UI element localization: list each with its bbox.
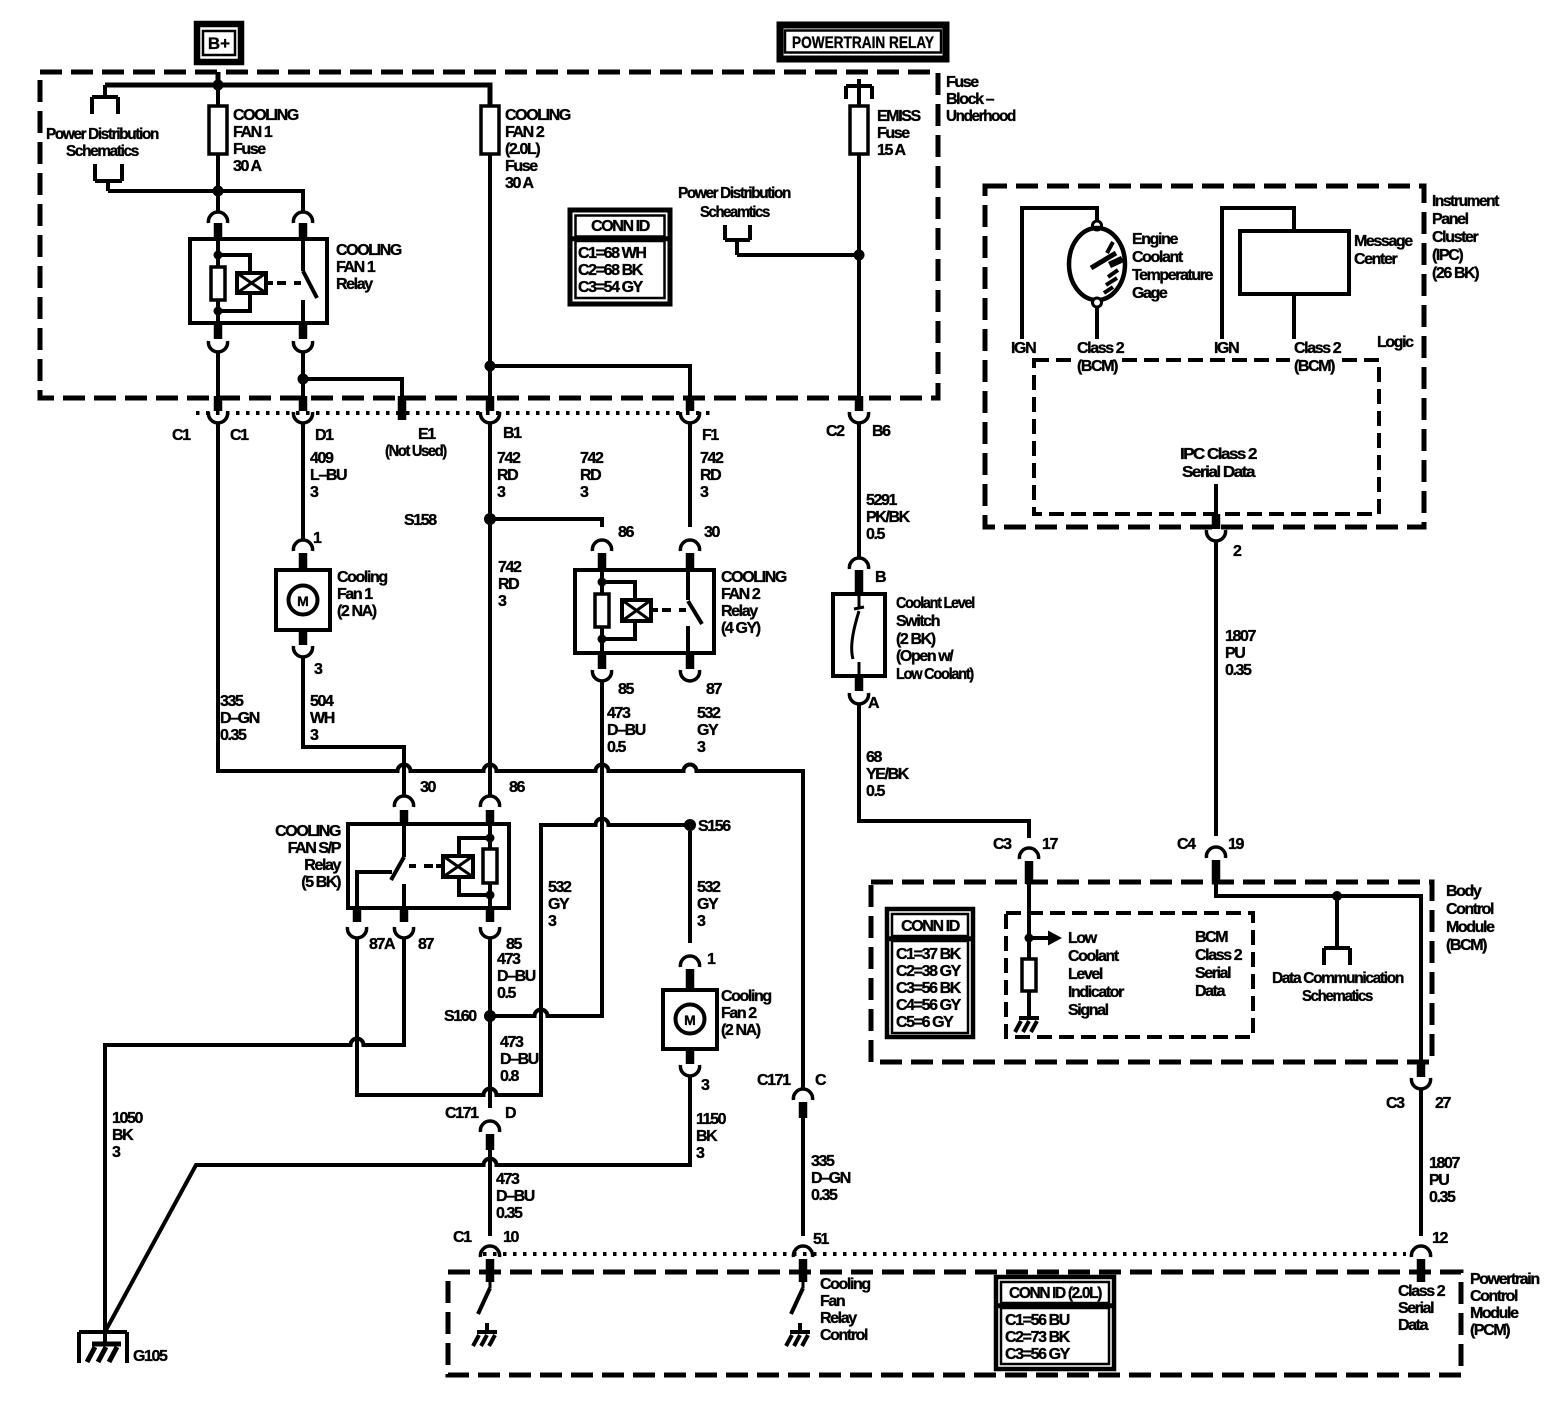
svg-text:S156: S156 [698, 818, 731, 835]
connector sp relay pin 86 [480, 779, 525, 824]
svg-text:27: 27 [1435, 1095, 1451, 1112]
svg-text:Cooling: Cooling [337, 569, 387, 586]
svg-text:E1: E1 [418, 426, 436, 443]
svg-text:12: 12 [1432, 1230, 1448, 1247]
svg-text:PU: PU [1429, 1172, 1449, 1189]
label Fuse Block Underhood [946, 74, 1016, 125]
svg-text:Coolant: Coolant [1068, 948, 1120, 965]
label Low Coolant Level Indicator Signal [1068, 930, 1124, 1019]
low coolant level indicator signal circuit [1015, 884, 1062, 1032]
svg-text:Signal: Signal [1068, 1002, 1109, 1019]
svg-text:C1: C1 [230, 427, 249, 444]
svg-text:C171: C171 [757, 1072, 791, 1089]
svg-text:Cooling: Cooling [820, 1276, 870, 1293]
svg-text:5291: 5291 [866, 492, 897, 509]
connector BCM C3 pin 27 [1386, 1062, 1451, 1112]
svg-text:Relay: Relay [820, 1310, 857, 1327]
svg-text:GY: GY [548, 896, 570, 913]
svg-text:Switch: Switch [896, 613, 940, 630]
off-page reference bracket power distribution (bottom) [95, 164, 122, 191]
connector BCM C4 pin 19 [1177, 836, 1244, 884]
connector PCM pin 12 [1411, 1230, 1448, 1282]
svg-text:C1: C1 [172, 427, 191, 444]
svg-text:(2 NA): (2 NA) [721, 1022, 761, 1039]
wire 742 RD 3 B1 to S158 to sp relay 86 [490, 423, 521, 796]
svg-text:Center: Center [1354, 251, 1397, 268]
connector coolant switch pin B [849, 558, 886, 594]
svg-text:Indicator: Indicator [1068, 984, 1124, 1001]
svg-text:C171: C171 [445, 1105, 479, 1122]
svg-text:3: 3 [314, 661, 323, 678]
svg-text:Powertrain: Powertrain [1470, 1271, 1539, 1288]
svg-text:1807: 1807 [1429, 1155, 1460, 1172]
svg-text:Low: Low [1068, 930, 1098, 947]
connector motor2 pin 3 [680, 1049, 710, 1094]
label C1 C1 [172, 427, 249, 444]
svg-text:86: 86 [618, 524, 634, 541]
label Cooling Fan Relay Control [820, 1276, 870, 1344]
svg-text:0.8: 0.8 [500, 1068, 520, 1085]
svg-text:15 A: 15 A [877, 142, 906, 159]
svg-text:(Open w/: (Open w/ [896, 648, 954, 665]
svg-text:0.35: 0.35 [496, 1205, 523, 1222]
svg-text:Block –: Block – [946, 91, 995, 108]
label Class 2 Serial Data (PCM) [1398, 1283, 1446, 1334]
BCM low coolant indicator inner dashed box [1006, 913, 1253, 1037]
svg-text:30 A: 30 A [233, 158, 262, 175]
wire IGN feed to gauge [1022, 208, 1097, 339]
connector fan2 relay pin 86 [592, 524, 634, 570]
svg-text:(2 NA): (2 NA) [337, 603, 377, 620]
svg-text:C1=68 WH: C1=68 WH [578, 245, 646, 262]
label C2 B6 [826, 423, 891, 440]
svg-text:335: 335 [811, 1153, 835, 1170]
svg-text:(IPC): (IPC) [1432, 247, 1463, 264]
connector D1 (x303) [293, 396, 312, 423]
svg-text:0.35: 0.35 [811, 1187, 838, 1204]
label Coolant Level Switch (2 BK) (Open w/ Low Coolant) [896, 595, 975, 683]
svg-text:3: 3 [580, 484, 589, 501]
label Engine Coolant Temperature Gage [1132, 231, 1213, 302]
label E1 (Not Used) [385, 426, 447, 460]
svg-text:D: D [505, 1105, 516, 1122]
PCM connector dotted line [483, 1252, 1406, 1256]
label B1 [503, 425, 522, 442]
label F1 [702, 427, 719, 444]
PCM cooling fan relay control driver 1 [473, 1282, 497, 1346]
off-page bracket powertrain relay feed [846, 79, 872, 99]
wire 1050 BK 3 pin 87 to ground [105, 938, 404, 1344]
svg-text:Temperature: Temperature [1132, 267, 1213, 284]
connector fan2 relay pin 85 [592, 653, 634, 698]
wire 742 RD 3 F1 to fan2 relay 30 [690, 423, 724, 527]
label Cooling Fan 2 (2 NA) [721, 988, 771, 1039]
svg-text:C1: C1 [453, 1229, 472, 1246]
label Power Distribution Scheamtics [678, 185, 791, 221]
wire 532 GY 3 S156 to motor2 [690, 831, 721, 943]
svg-text:Cooling: Cooling [721, 988, 771, 1005]
svg-text:30: 30 [704, 524, 720, 541]
coolant level switch [833, 594, 885, 676]
svg-text:742: 742 [498, 559, 522, 576]
svg-text:C1=56 BU: C1=56 BU [1005, 1312, 1070, 1329]
svg-text:YE/BK: YE/BK [866, 766, 910, 783]
svg-text:532: 532 [548, 879, 572, 896]
wire B+ feed bus [105, 72, 490, 106]
svg-text:BCM: BCM [1195, 929, 1228, 946]
instrument panel cluster dashed box [985, 186, 1424, 527]
label Body Control Module (BCM) [1446, 883, 1495, 954]
svg-text:C3=54 GY: C3=54 GY [578, 279, 644, 296]
connector B1 (x490) [480, 396, 499, 423]
svg-text:17: 17 [1042, 836, 1058, 853]
svg-text:C4=56 GY: C4=56 GY [896, 997, 962, 1014]
wire F1 branch to cooling fan 2 relay pin 30 [490, 366, 690, 396]
svg-text:Class 2: Class 2 [1294, 340, 1342, 357]
svg-text:B1: B1 [503, 425, 522, 442]
svg-text:3: 3 [112, 1144, 121, 1161]
svg-text:BK: BK [112, 1127, 134, 1144]
relay COOLING FAN S/P [348, 824, 509, 908]
label COOLING FAN S/P Relay (5 BK) [275, 823, 342, 891]
svg-text:RD: RD [498, 576, 519, 593]
svg-text:Serial: Serial [1195, 965, 1231, 982]
svg-text:Relay: Relay [721, 603, 758, 620]
label Instrument Panel Cluster (IPC) (26 BK) [1432, 193, 1500, 282]
wire BCM class2 serial data bus [1216, 884, 1421, 1062]
svg-text:Power Distribution: Power Distribution [678, 185, 791, 202]
svg-text:Panel: Panel [1432, 211, 1469, 228]
svg-text:D–BU: D–BU [497, 968, 536, 985]
svg-text:B: B [875, 569, 886, 586]
svg-text:C2: C2 [826, 423, 845, 440]
svg-text:B+: B+ [208, 34, 230, 53]
svg-text:742: 742 [497, 450, 521, 467]
svg-text:FAN 1: FAN 1 [336, 259, 376, 276]
connector PCM pin 51 [793, 1231, 829, 1282]
svg-text:1807: 1807 [1225, 628, 1256, 645]
svg-text:Fuse: Fuse [946, 74, 979, 91]
svg-text:G105: G105 [133, 1348, 168, 1365]
connector BCM C3 pin 17 [993, 836, 1058, 884]
svg-text:Fan 2: Fan 2 [721, 1005, 757, 1022]
svg-text:3: 3 [497, 484, 506, 501]
powertrain relay title box [780, 25, 946, 59]
node B+ bus junction [213, 80, 224, 91]
wire relay fan1 pin C1 down [216, 352, 220, 396]
svg-text:RD: RD [700, 467, 721, 484]
svg-text:Class 2: Class 2 [1398, 1283, 1446, 1300]
svg-text:532: 532 [697, 705, 721, 722]
svg-text:D–BU: D–BU [607, 722, 646, 739]
svg-text:Serial Data: Serial Data [1182, 464, 1256, 481]
svg-text:IPC Class 2: IPC Class 2 [1180, 446, 1258, 463]
label Powertrain Control Module (PCM) [1470, 1271, 1539, 1339]
label 335 D-GN 0.35 [220, 693, 260, 744]
svg-text:0.35: 0.35 [1225, 662, 1252, 679]
svg-text:CONN ID: CONN ID [591, 218, 650, 235]
svg-text:Fuse: Fuse [233, 141, 266, 158]
svg-text:Data: Data [1195, 983, 1226, 1000]
svg-text:D–GN: D–GN [811, 1170, 851, 1187]
svg-text:1050: 1050 [112, 1110, 143, 1127]
connector C1 (x218) [208, 396, 227, 423]
svg-text:Control: Control [1470, 1288, 1518, 1305]
off-page bracket data communication schematics [1324, 896, 1350, 965]
fuse F1 COOLING FAN 1 30A [209, 85, 227, 212]
wire 473 D-BU 0.35 to PCM [490, 1146, 535, 1236]
label COOLING FAN 1 Relay [336, 242, 402, 293]
wire branch to E1 not used [298, 374, 403, 397]
label 532 GY 3 riser [548, 879, 572, 930]
svg-text:(PCM): (PCM) [1470, 1322, 1510, 1339]
svg-text:S158: S158 [404, 512, 437, 529]
node emiss feed junction [854, 250, 865, 261]
wire 335 D-GN bus to C171 pin C [218, 423, 803, 1089]
svg-text:CONN ID: CONN ID [901, 918, 960, 935]
svg-text:(BCM): (BCM) [1294, 358, 1335, 375]
node S160 splice [444, 1008, 496, 1025]
connector C171 pin C [757, 1072, 827, 1118]
svg-text:COOLING: COOLING [233, 107, 299, 124]
label BCM Class 2 Serial Data [1195, 929, 1243, 1000]
label Logic [1377, 334, 1414, 351]
wire 5291 PK/BK 0.5 [859, 423, 911, 557]
svg-text:87A: 87A [369, 936, 396, 953]
label 504 WH 3 [310, 693, 335, 744]
label Power Distribution Schematics [46, 126, 159, 160]
svg-text:Level: Level [1068, 966, 1103, 983]
svg-text:RD: RD [497, 467, 518, 484]
svg-text:335: 335 [220, 693, 244, 710]
svg-text:A: A [868, 695, 880, 712]
connector motor1 pin 1 [293, 530, 322, 570]
svg-text:BK: BK [696, 1128, 718, 1145]
node fuse1 coil feed junction [213, 186, 224, 197]
svg-text:POWERTRAIN RELAY: POWERTRAIN RELAY [792, 33, 935, 52]
body control module dashed box [871, 882, 1432, 1062]
svg-text:C1=37 BK: C1=37 BK [896, 946, 962, 963]
svg-text:IGN: IGN [1214, 340, 1239, 357]
connector table CONN ID (2.0L) PCM [996, 1277, 1114, 1369]
wire S158 branch to fan2 relay 86 [490, 450, 604, 527]
connector F1 (x690) [680, 396, 699, 423]
svg-text:COOLING: COOLING [505, 107, 571, 124]
svg-text:742: 742 [700, 450, 724, 467]
svg-text:C2=73 BK: C2=73 BK [1005, 1329, 1071, 1346]
fuse EMISS 15A [850, 86, 868, 396]
wire from bracket to relay coil feed [108, 191, 303, 212]
svg-text:409: 409 [310, 450, 334, 467]
wire IGN feed to message center [1222, 208, 1294, 339]
label IGN Class 2 (BCM) left [1011, 340, 1125, 377]
label COOLING FAN 2 Relay (4 GY) [721, 569, 787, 637]
label Message Center [1354, 233, 1413, 268]
node S158 splice [404, 512, 496, 529]
wire 1807 PU 0.35 BCM to PCM [1421, 1089, 1460, 1236]
connector sp relay pin 85 [480, 908, 522, 953]
svg-text:532: 532 [697, 879, 721, 896]
svg-text:Engine: Engine [1132, 231, 1178, 248]
svg-text:Body: Body [1446, 883, 1482, 900]
svg-text:PU: PU [1225, 645, 1245, 662]
svg-text:COOLING: COOLING [336, 242, 402, 259]
powertrain control module dashed box [448, 1272, 1461, 1375]
svg-text:473: 473 [497, 951, 521, 968]
svg-text:3: 3 [697, 739, 706, 756]
svg-text:L–BU: L–BU [310, 467, 347, 484]
svg-text:Relay: Relay [336, 276, 373, 293]
svg-text:(4 GY): (4 GY) [721, 620, 761, 637]
svg-text:COOLING: COOLING [275, 823, 341, 840]
label COOLING FAN 2 Fuse 30 A [505, 107, 571, 192]
svg-text:0.5: 0.5 [866, 526, 886, 543]
svg-text:3: 3 [696, 1145, 705, 1162]
svg-text:473: 473 [500, 1034, 524, 1051]
connector IPC pin 2 [1206, 484, 1242, 560]
svg-text:Instrument: Instrument [1432, 193, 1500, 210]
svg-text:Control: Control [820, 1327, 868, 1344]
svg-text:87: 87 [706, 681, 722, 698]
svg-text:FAN 2: FAN 2 [505, 124, 545, 141]
off-page bracket power distribution scheamtics [725, 225, 750, 255]
svg-text:10: 10 [503, 1229, 519, 1246]
svg-text:87: 87 [418, 936, 434, 953]
off-page reference bracket power distribution (top) [92, 85, 118, 114]
svg-text:D–BU: D–BU [500, 1051, 539, 1068]
connector sp relay pin 30 [394, 779, 436, 824]
connector C171 pin D [445, 1105, 516, 1150]
svg-text:473: 473 [607, 705, 631, 722]
wire 473 D-BU 0.5 pin 85 to S160 [490, 938, 536, 1016]
svg-text:B6: B6 [872, 423, 891, 440]
svg-text:D1: D1 [315, 427, 334, 444]
svg-text:Class 2: Class 2 [1077, 340, 1125, 357]
connector table CONN ID (BCM) [887, 909, 973, 1037]
svg-text:M: M [684, 1012, 696, 1028]
connector fan2 relay pin 87 [680, 653, 722, 698]
svg-text:504: 504 [310, 693, 334, 710]
wire 1150 BK 3 motor2 to ground [106, 1076, 727, 1330]
svg-text:2: 2 [1233, 543, 1242, 560]
IPC logic inner dashed box [1034, 360, 1379, 514]
svg-text:RD: RD [580, 467, 601, 484]
svg-text:0.5: 0.5 [607, 739, 627, 756]
label D1 [315, 427, 334, 444]
wire 68 YE/BK 0.5 to BCM C3 17 [859, 704, 1029, 838]
svg-text:GY: GY [697, 722, 719, 739]
wire 1807 PU 0.35 IPC to BCM [1216, 541, 1256, 836]
svg-text:3: 3 [310, 484, 319, 501]
svg-text:3: 3 [701, 1077, 710, 1094]
svg-text:PK/BK: PK/BK [866, 509, 911, 526]
svg-text:3: 3 [700, 484, 709, 501]
svg-text:D–GN: D–GN [220, 710, 260, 727]
svg-text:68: 68 [866, 749, 882, 766]
svg-text:C2=68 BK: C2=68 BK [578, 262, 644, 279]
motor M cooling fan 1 [276, 570, 330, 630]
svg-text:30 A: 30 A [505, 175, 534, 192]
label 532 GY 3 [697, 705, 721, 756]
wire 473 D-BU 0.8 S160 to C171 D [490, 1016, 539, 1108]
node F1 branch junction [485, 361, 496, 372]
svg-text:Underhood: Underhood [946, 108, 1016, 125]
svg-text:WH: WH [310, 710, 335, 727]
svg-text:86: 86 [509, 779, 525, 796]
label IPC Class 2 Serial Data [1180, 446, 1258, 481]
svg-text:D–BU: D–BU [496, 1188, 535, 1205]
svg-text:19: 19 [1228, 836, 1244, 853]
connector sp relay pin 87A [347, 908, 396, 953]
svg-text:Low Coolant): Low Coolant) [896, 666, 974, 683]
svg-text:Control: Control [1446, 901, 1494, 918]
svg-text:Cluster: Cluster [1432, 229, 1478, 246]
relay COOLING FAN 1 [190, 239, 327, 323]
svg-text:(2 BK): (2 BK) [896, 631, 936, 648]
svg-text:COOLING: COOLING [721, 569, 787, 586]
svg-text:Data Communication: Data Communication [1272, 970, 1404, 987]
label EMISS Fuse 15 A [877, 108, 922, 159]
svg-text:FAN 1: FAN 1 [233, 124, 273, 141]
svg-text:Schematics: Schematics [66, 143, 139, 160]
wire S160 branch to fan2 relay 85 leg [490, 681, 602, 1016]
svg-text:Message: Message [1354, 233, 1413, 250]
svg-text:C3=56 BK: C3=56 BK [896, 980, 962, 997]
PCM cooling fan relay control driver 2 [786, 1282, 810, 1346]
wire 87A to 532 GY riser to S156 [357, 819, 690, 1096]
wire relay fan1 pin D1 down [301, 352, 305, 396]
svg-text:CONN ID (2.0L): CONN ID (2.0L) [1009, 1285, 1102, 1302]
svg-text:C: C [815, 1072, 827, 1089]
svg-text:1150: 1150 [696, 1111, 727, 1128]
svg-text:(Not Used): (Not Used) [385, 443, 447, 460]
label 473 D-BU 0.5 [607, 705, 646, 756]
node S156 splice [684, 818, 731, 835]
svg-text:Power Distribution: Power Distribution [46, 126, 159, 143]
relay COOLING FAN 2 [575, 570, 714, 653]
svg-text:3: 3 [310, 727, 319, 744]
svg-text:Module: Module [1446, 919, 1495, 936]
label COOLING FAN 1 Fuse 30 A [233, 107, 299, 175]
battery feed B+ symbol [197, 24, 241, 62]
connector coolant switch pin A [849, 676, 880, 712]
svg-text:Class 2: Class 2 [1195, 947, 1243, 964]
svg-text:M: M [297, 593, 309, 609]
svg-text:GY: GY [697, 896, 719, 913]
svg-text:473: 473 [496, 1171, 520, 1188]
svg-text:C3: C3 [993, 836, 1012, 853]
svg-text:Coolant Level: Coolant Level [896, 595, 975, 612]
connector fan2 relay pin 30 [680, 524, 720, 570]
svg-text:Schematics: Schematics [1302, 988, 1373, 1005]
wire 504 WH 3 motor1 to sp relay 30 [303, 657, 404, 796]
svg-text:IGN: IGN [1011, 340, 1036, 357]
svg-text:85: 85 [618, 681, 634, 698]
wire 335 D-GN 0.35 to PCM 51 [803, 1114, 851, 1236]
svg-text:C4: C4 [1177, 836, 1196, 853]
svg-text:S160: S160 [444, 1008, 477, 1025]
svg-text:0.5: 0.5 [497, 985, 517, 1002]
svg-text:3: 3 [697, 913, 706, 930]
svg-text:Serial: Serial [1398, 1300, 1434, 1317]
svg-text:51: 51 [813, 1231, 829, 1248]
svg-text:(5 BK): (5 BK) [301, 874, 341, 891]
connector sp relay pin 87 [394, 908, 434, 953]
motor M cooling fan 2 [663, 990, 717, 1049]
svg-text:Data: Data [1398, 1317, 1429, 1334]
label 742 RD 3 below S158 [498, 559, 522, 610]
message center box [1240, 231, 1349, 339]
